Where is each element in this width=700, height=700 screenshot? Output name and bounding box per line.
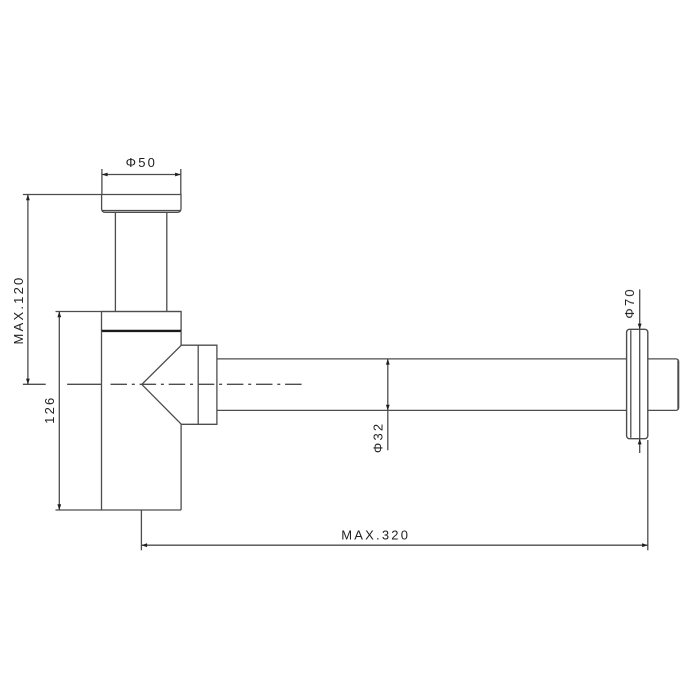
top flange inner line bbox=[102, 210, 180, 212]
dim 126: top extension (collar top extended) bbox=[56, 311, 182, 313]
arrow Φ70 top bbox=[638, 324, 642, 330]
inlet neck pipe bbox=[115, 212, 166, 311]
svg-text:Φ70: Φ70 bbox=[622, 287, 637, 318]
dim 126: dimension line bbox=[58, 312, 60, 511]
dimension texts bbox=[11, 155, 637, 542]
dim MAX.120: top extension line (left of flange) bbox=[23, 194, 102, 196]
arrow Φ32 bottom bbox=[386, 405, 390, 411]
arrow MAX.320 right bbox=[642, 543, 648, 547]
dim MAX.120: dimension line bbox=[27, 195, 29, 385]
body bottom line with left extension bbox=[56, 509, 182, 511]
svg-text:Φ32: Φ32 bbox=[371, 422, 386, 453]
arrow 126 bottom bbox=[57, 504, 61, 510]
dim MAX.320: dimension line bbox=[141, 544, 647, 546]
svg-text:126: 126 bbox=[42, 396, 57, 424]
arrowheads bbox=[26, 173, 648, 547]
arrow Φ50 right bbox=[175, 173, 181, 177]
dim MAX.320: left extension line bbox=[140, 510, 142, 550]
dim MAX.320: right extension line bbox=[647, 440, 649, 550]
arrow Φ70 bottom bbox=[638, 439, 642, 445]
arrow Φ50 left bbox=[102, 173, 108, 177]
pipe end cap bbox=[648, 359, 679, 411]
dim Φ70: dimension line bbox=[639, 289, 641, 453]
arrow MAX.320 left bbox=[141, 543, 147, 547]
arrow 126 top bbox=[57, 312, 61, 318]
arrow MAX.120 top bbox=[26, 195, 30, 201]
body collar (nut) bbox=[102, 312, 182, 332]
end cap right edge (thick) bbox=[677, 361, 679, 409]
svg-text:Φ50: Φ50 bbox=[126, 155, 157, 170]
dim Φ50: extension lines bbox=[102, 169, 181, 195]
centerline extension left of body bbox=[23, 383, 102, 385]
trap body bbox=[102, 331, 182, 510]
arrow Φ32 top bbox=[386, 359, 390, 365]
horizontal pipe Φ32 bbox=[217, 359, 627, 411]
centerline dash-dot through body and cone bbox=[111, 383, 305, 385]
arrow MAX.120 bottom bbox=[26, 379, 30, 385]
svg-text:MAX.120: MAX.120 bbox=[11, 276, 26, 345]
cone inner vertical bbox=[197, 345, 199, 424]
tee cone outlet bbox=[142, 345, 217, 424]
collar thick bottom line bbox=[102, 330, 182, 332]
top flange Φ50 outline bbox=[102, 195, 181, 213]
dim Φ50: dimension line bbox=[102, 174, 181, 176]
svg-text:MAX.320: MAX.320 bbox=[341, 528, 410, 543]
wall flange Φ70 bbox=[627, 329, 648, 438]
wall flange inner line bbox=[630, 330, 632, 438]
dim Φ32: dimension line bbox=[387, 359, 389, 450]
